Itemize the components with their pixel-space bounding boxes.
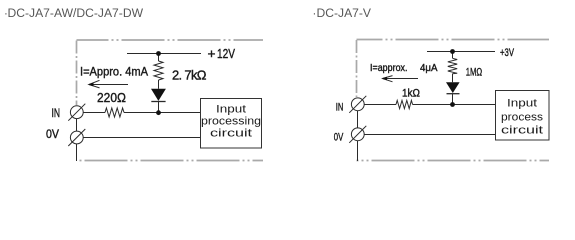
svg-text:IN: IN (336, 102, 344, 114)
svg-text:0V: 0V (46, 127, 59, 141)
svg-text:220Ω: 220Ω (97, 90, 126, 105)
svg-text:circuit: circuit (210, 127, 252, 139)
svg-text:1MΩ: 1MΩ (466, 67, 483, 79)
svg-text:I=approx.: I=approx. (370, 62, 408, 74)
svg-text:circuit: circuit (501, 124, 543, 136)
svg-text:0V: 0V (334, 131, 344, 143)
svg-text:4μA: 4μA (420, 62, 438, 74)
svg-text:+: + (208, 46, 216, 61)
svg-text:IN: IN (52, 106, 61, 120)
svg-text:12V: 12V (217, 46, 235, 61)
svg-text:2. 7kΩ: 2. 7kΩ (172, 68, 207, 83)
svg-text:DC-JA7-AW/DC-JA7-DW: DC-JA7-AW/DC-JA7-DW (8, 8, 144, 20)
svg-text:DC-JA7-V: DC-JA7-V (317, 8, 372, 20)
svg-text:1kΩ: 1kΩ (402, 88, 420, 100)
svg-text:processing: processing (201, 115, 261, 127)
svg-text:+3V: +3V (500, 47, 514, 59)
svg-text:process: process (501, 112, 544, 124)
svg-text:Input: Input (507, 98, 537, 110)
svg-text:I=Appro. 4mA: I=Appro. 4mA (80, 65, 148, 79)
svg-text:Input: Input (216, 103, 246, 115)
